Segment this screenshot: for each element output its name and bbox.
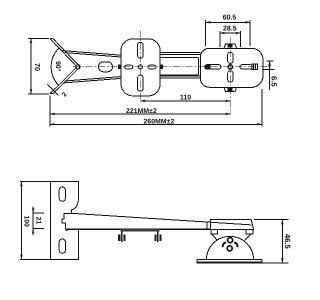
head clamp plate	[211, 220, 254, 230]
svg-text:28.5: 28.5	[223, 26, 237, 33]
head clamp left lip	[211, 230, 217, 234]
dim 46.5 tick bottom	[262, 262, 288, 264]
arm right bottom rail inner	[160, 75, 200, 77]
head clamp right lip	[246, 230, 253, 234]
middle plate left oval	[125, 65, 133, 69]
wall plate top slot	[59, 187, 65, 201]
dim 6.5 tick bottom	[262, 69, 275, 71]
dim 46.5 line	[281, 220, 283, 263]
head plate bottom tab	[224, 87, 237, 91]
head plate bottom tab mark	[227, 88, 232, 91]
dim 21 tick top	[33, 212, 44, 214]
svg-text:260MM±2: 260MM±2	[144, 118, 175, 125]
dim 60.5 line	[206, 21, 250, 23]
head plate left slot clamp	[206, 65, 211, 69]
middle plate top slot	[138, 43, 144, 59]
arm left top rail inner	[65, 53, 122, 57]
dim 28.5 line	[220, 32, 241, 34]
base plate left cap	[196, 259, 198, 263]
arm right top rail outer	[160, 52, 200, 54]
arm left bottom rail inner	[65, 77, 122, 81]
arm bottom edge	[65, 228, 211, 230]
middle swivel plate	[121, 39, 160, 96]
dim 70 extension top	[28, 37, 49, 39]
svg-text:221MM±2: 221MM±2	[126, 108, 157, 115]
base plate top edge	[197, 258, 262, 260]
arm left top rail outer	[63, 51, 122, 56]
middle plate right oval	[148, 65, 156, 69]
svg-text:110: 110	[180, 94, 191, 101]
wall V-plate outer	[50, 39, 77, 94]
svg-text:2: 2	[61, 91, 69, 98]
head plate left slot	[205, 65, 221, 70]
dim 221 line	[50, 113, 230, 115]
svg-text:100: 100	[22, 216, 29, 228]
apex hole	[76, 65, 80, 69]
dim 260 extension right	[261, 89, 263, 126]
svg-text:90°: 90°	[54, 61, 61, 72]
arm fillet gusset	[71, 199, 78, 213]
under-arm bolt left	[118, 231, 125, 242]
dim 21 tick bottom	[33, 228, 44, 230]
head plate (top view)	[200, 48, 263, 87]
dim 46.5 tick top	[254, 219, 289, 221]
base plate right cap	[261, 259, 263, 263]
dim 6.5 line	[269, 61, 271, 90]
thickness 2 leader	[48, 84, 59, 95]
dim 110 line	[140, 100, 230, 102]
under-arm bolt right	[154, 231, 161, 242]
svg-text:70: 70	[33, 63, 42, 71]
arm right channel end cap	[198, 58, 200, 76]
V-plate bottom end cap	[50, 93, 53, 95]
dim 60.5 extension left	[205, 20, 207, 46]
arm bottom left lip	[65, 229, 67, 231]
wall plate bottom slot	[59, 239, 65, 253]
dim 100 tick bottom	[20, 258, 50, 260]
dim 100 line	[20, 182, 22, 260]
neck left side	[212, 234, 218, 241]
wall V-plate inner	[53, 39, 80, 94]
arm right channel bottom line	[160, 74, 198, 76]
dim 260 line	[50, 123, 262, 125]
arm top edge	[71, 213, 251, 225]
head plate top slot	[228, 52, 233, 63]
wall plate (side view)	[50, 182, 78, 260]
head plate bottom slot	[228, 71, 233, 82]
dim 60.5 extension right	[249, 20, 251, 46]
middle plate right clamp tab	[160, 65, 163, 70]
dim 6.5 tick top	[267, 60, 274, 62]
arm right top rail inner	[160, 54, 200, 56]
tilt dome	[206, 236, 253, 260]
head plate vertical centerline	[229, 38, 231, 115]
arm right bottom rail outer	[160, 77, 200, 79]
dim 70 extension bottom	[28, 93, 49, 95]
dim 21 line	[32, 207, 34, 235]
arm hook step	[62, 213, 71, 228]
base plate body	[197, 262, 262, 264]
dim 28.5 extension left	[219, 31, 221, 47]
dim 70 line	[30, 38, 32, 94]
middle plate vertical centerline	[139, 31, 141, 102]
head plate top tab	[224, 44, 237, 48]
head plate center hole	[228, 65, 232, 69]
svg-text:21: 21	[35, 217, 42, 225]
svg-text:6.5: 6.5	[269, 76, 278, 87]
middle plate left clamp tab	[118, 65, 121, 70]
middle plate bottom slot	[138, 75, 144, 91]
dim 28.5 extension right	[240, 31, 242, 47]
wing left	[223, 242, 226, 247]
dim 221 extension left	[49, 96, 51, 127]
arm left bottom rail outer	[63, 78, 122, 83]
V-plate top end cap	[50, 38, 53, 40]
horizontal centerline	[73, 66, 269, 68]
arm right channel top line	[160, 57, 198, 59]
head plate right slot clamp	[252, 64, 257, 70]
wing screw lower	[227, 246, 232, 251]
angle 90 arc	[51, 48, 58, 85]
head plate right clamp bars	[253, 64, 255, 69]
wing right	[234, 242, 237, 247]
svg-text:46.5: 46.5	[283, 234, 292, 250]
wing screw upper	[228, 238, 233, 243]
head plate right slot	[240, 65, 252, 70]
arm end cap	[206, 222, 208, 229]
under-arm channel bar	[121, 229, 160, 231]
middle plate center hole	[138, 65, 142, 69]
neck right side	[245, 234, 252, 241]
dome top screw cap	[229, 236, 232, 238]
svg-text:60.5: 60.5	[223, 15, 237, 22]
arm oval hole	[99, 62, 113, 72]
head plate top tab mark	[227, 44, 232, 47]
dim 100 tick top	[20, 181, 50, 183]
